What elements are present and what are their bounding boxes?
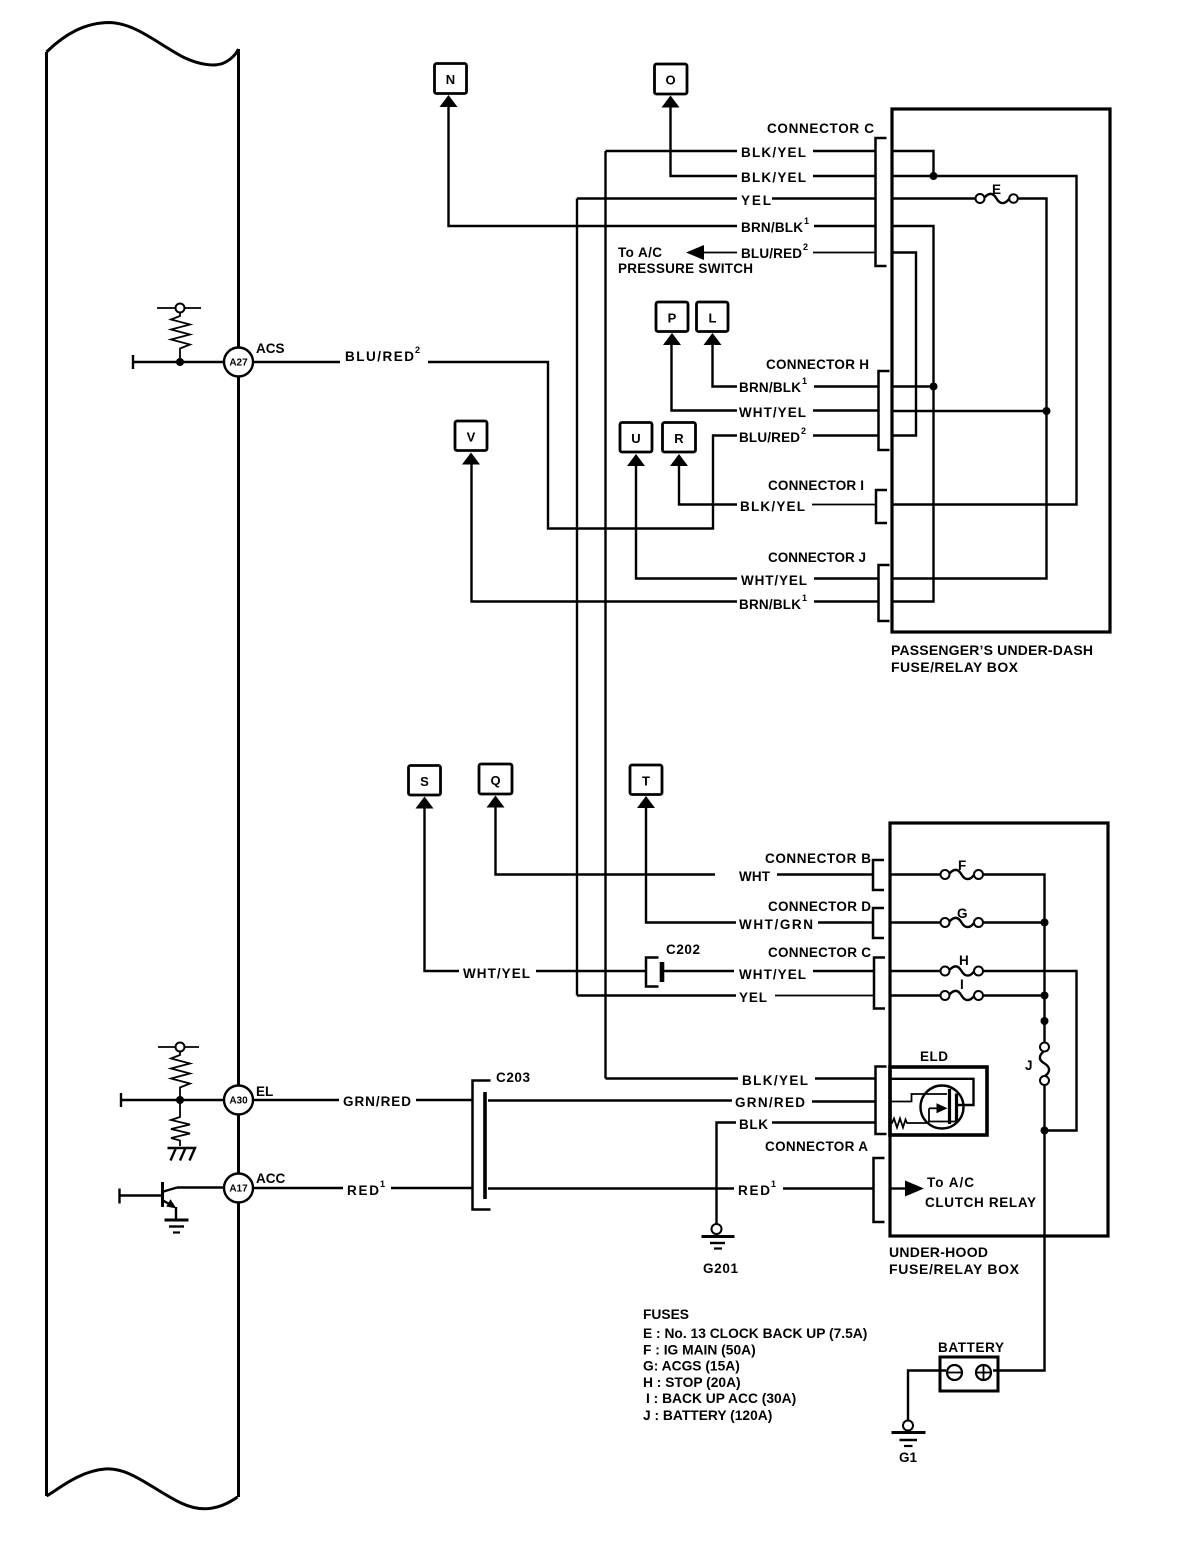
inline connector C203 — [473, 1081, 491, 1210]
svg-text:P: P — [668, 311, 677, 326]
junction dot above fuse J — [1041, 1017, 1049, 1025]
svg-text:BLU/RED: BLU/RED — [345, 349, 414, 364]
wire RED1 from A17 to C203 — [253, 1187, 472, 1189]
svg-text:WHT/GRN: WHT/GRN — [739, 917, 813, 932]
svg-text:1: 1 — [802, 376, 807, 386]
svg-text:A27: A27 — [229, 358, 248, 369]
label RED 1 (at connector A) — [738, 1179, 776, 1198]
label PASSENGER'S UNDER-DASH FUSE/RELAY BOX — [891, 642, 1093, 675]
connector box L — [697, 302, 729, 345]
wire BRN/BLK1 from V to connector J — [472, 462, 879, 602]
svg-text:YEL: YEL — [741, 193, 771, 208]
svg-text:GRN/RED: GRN/RED — [343, 1094, 411, 1109]
connector box U — [620, 423, 652, 467]
svg-text:WHT/YEL: WHT/YEL — [739, 967, 806, 982]
svg-text:N: N — [446, 72, 455, 87]
wires inside passenger box — [892, 151, 1077, 602]
connector bracket B — [873, 860, 884, 890]
connector box R — [663, 423, 696, 467]
connector bracket C (top) — [876, 138, 887, 266]
fuse J (battery main, vertical) — [1025, 1043, 1049, 1237]
ECU module outline (torn-edge body) — [47, 23, 239, 1509]
svg-text:I : BACK UP ACC (30A): I : BACK UP ACC (30A) — [646, 1391, 796, 1406]
wire YEL (under-hood C) — [577, 994, 874, 996]
connector box V — [455, 421, 487, 465]
svg-text:BLK/YEL: BLK/YEL — [740, 499, 805, 514]
junction dot at resistor/A27 wire — [176, 358, 184, 366]
svg-text:RED: RED — [347, 1183, 379, 1198]
svg-text:BRN/BLK: BRN/BLK — [739, 597, 801, 612]
svg-text:CONNECTOR C: CONNECTOR C — [767, 121, 874, 136]
junction dot fuse G output — [1041, 919, 1049, 927]
label BRN/BLK 1 (H) — [739, 376, 807, 395]
passenger's under-dash fuse/relay box — [892, 109, 1110, 632]
svg-text:V: V — [467, 430, 476, 445]
connector bracket A — [874, 1158, 885, 1222]
svg-text:CONNECTOR J: CONNECTOR J — [768, 550, 866, 565]
svg-text:U: U — [631, 431, 640, 446]
resistor (pull-down at A30) — [171, 1100, 190, 1146]
svg-text:ACC: ACC — [256, 1171, 285, 1186]
svg-text:E: E — [992, 182, 1001, 197]
wire BLU/RED2 (connector C) to A/C pressure switch arrow — [686, 245, 876, 260]
connector bracket J — [879, 565, 890, 621]
svg-text:WHT/YEL: WHT/YEL — [741, 573, 807, 588]
svg-text:A30: A30 — [229, 1096, 248, 1107]
wire BLK/YEL (2nd of connector C) from O — [671, 105, 876, 177]
wire BRN/BLK1 from N to connector C — [449, 104, 876, 226]
svg-text:I: I — [960, 977, 964, 992]
svg-text:BLU/RED: BLU/RED — [741, 246, 802, 261]
label BRN/BLK 1 — [741, 216, 809, 235]
connector box S — [409, 766, 441, 809]
svg-text:T: T — [642, 774, 650, 789]
wire WHT/YEL from U to connector J — [636, 463, 879, 579]
svg-text:Q: Q — [490, 773, 500, 788]
earth ground at transistor emitter — [165, 1220, 189, 1233]
wire YEL (connector C) to long vertical — [577, 197, 876, 199]
svg-text:UNDER-HOOD: UNDER-HOOD — [889, 1244, 988, 1260]
connector box O — [655, 64, 688, 108]
svg-text:YEL: YEL — [739, 990, 767, 1005]
label BRN/BLK 1 (J) — [739, 593, 807, 612]
label BLU/RED 2 — [741, 242, 808, 261]
long vertical wire BLK/YEL (top C to ELD) — [604, 151, 606, 1079]
svg-text:BLU/RED: BLU/RED — [739, 430, 800, 445]
wire A30 internal lead with end tick — [121, 1093, 223, 1107]
svg-text:G1: G1 — [899, 1450, 917, 1465]
fuse legend text — [643, 1307, 867, 1423]
svg-text:EL: EL — [256, 1084, 273, 1099]
svg-text:RED: RED — [738, 1183, 770, 1198]
svg-text:1: 1 — [802, 593, 807, 603]
svg-text:CONNECTOR H: CONNECTOR H — [766, 357, 869, 372]
svg-text:CONNECTOR I: CONNECTOR I — [768, 478, 864, 493]
svg-text:FUSE/RELAY BOX: FUSE/RELAY BOX — [889, 1261, 1020, 1277]
svg-text:H : STOP (20A): H : STOP (20A) — [643, 1375, 741, 1390]
svg-text:BLK/YEL: BLK/YEL — [741, 145, 806, 160]
long vertical wire YEL (top C to under-hood C) — [576, 199, 578, 996]
connector bracket C (under-hood) — [874, 958, 885, 1009]
svg-text:BLK: BLK — [739, 1117, 768, 1132]
svg-text:FUSE/RELAY BOX: FUSE/RELAY BOX — [891, 659, 1019, 675]
label BLU/RED2 (at A27) — [345, 345, 420, 364]
pin circle A27 — [224, 348, 253, 377]
svg-text:To A/C: To A/C — [618, 245, 662, 260]
junction dot (WHT/YEL tie) — [1043, 407, 1051, 415]
svg-text:C202: C202 — [666, 942, 700, 957]
connector box N — [435, 64, 467, 108]
svg-text:O: O — [665, 73, 675, 88]
inline connector C202 — [646, 958, 662, 987]
wire BLU/RED2 from A27 to connector H — [253, 362, 879, 529]
svg-text:R: R — [674, 431, 684, 446]
resistor (pull-up at A30) — [158, 1043, 199, 1101]
svg-text:BRN/BLK: BRN/BLK — [741, 220, 803, 235]
junction dot (BRN/BLK tie) — [930, 383, 938, 391]
svg-text:ELD: ELD — [920, 1049, 948, 1064]
svg-text:J: J — [1025, 1058, 1033, 1073]
svg-text:G201: G201 — [703, 1261, 738, 1276]
wire A27 internal lead with end tick — [133, 355, 224, 369]
wire WHT/GRN from T to connector D — [646, 805, 873, 923]
wire BLK/YEL (1st of connector C) to long vertical — [606, 150, 876, 152]
svg-text:WHT: WHT — [739, 869, 771, 884]
svg-text:A17: A17 — [229, 1184, 248, 1195]
ground G201 — [702, 1224, 739, 1276]
fuse F — [890, 858, 1045, 1043]
wire BLK from ELD to G201 — [717, 1123, 876, 1224]
connector bracket I — [876, 490, 887, 523]
wire and arrow To A/C CLUTCH RELAY — [890, 1175, 1036, 1210]
svg-text:BATTERY: BATTERY — [938, 1340, 1004, 1355]
wire BRN/BLK1 from L to connector H — [713, 342, 879, 387]
wire GRN/RED from A30 to C203 — [253, 1099, 472, 1101]
svg-text:GRN/RED: GRN/RED — [735, 1095, 805, 1110]
svg-text:C203: C203 — [496, 1070, 530, 1085]
under-hood fuse/relay box — [890, 823, 1108, 1236]
junction dot fuse J output — [1041, 1127, 1049, 1135]
svg-text:FUSES: FUSES — [643, 1307, 689, 1322]
wire WHT from Q to connector B — [496, 805, 874, 875]
svg-text:E : No. 13 CLOCK BACK UP (7.5A: E : No. 13 CLOCK BACK UP (7.5A) — [643, 1326, 867, 1341]
ground G1 — [892, 1421, 926, 1466]
svg-text:BLK/YEL: BLK/YEL — [741, 170, 806, 185]
svg-text:CONNECTOR A: CONNECTOR A — [765, 1139, 868, 1154]
junction dot (BLK/YEL tie) — [930, 172, 938, 180]
wire WHT/YEL from P to connector H — [672, 342, 879, 411]
svg-text:CONNECTOR C: CONNECTOR C — [768, 945, 871, 960]
ELD unit outer case — [890, 1067, 987, 1135]
svg-text:G: ACGS (15A): G: ACGS (15A) — [643, 1359, 740, 1374]
fuse H — [890, 953, 1077, 1131]
wire GRN/RED (C203 to ELD) — [488, 1101, 876, 1102]
resistor (ELD shunt) on BLK lead — [891, 1119, 929, 1128]
wire battery feed below box — [993, 1236, 1045, 1371]
connector bracket D — [873, 908, 884, 938]
transistor Q (at A17) — [120, 1182, 178, 1219]
svg-text:1: 1 — [771, 1179, 776, 1189]
wire WHT/YEL from S through C202 to under-hood connector C — [425, 806, 875, 972]
svg-text:BLK/YEL: BLK/YEL — [742, 1073, 808, 1088]
label RED 1 (at A17) — [347, 1179, 385, 1198]
svg-text:S: S — [420, 774, 429, 789]
label UNDER-HOOD FUSE/RELAY BOX — [889, 1244, 1020, 1277]
svg-text:F: F — [958, 858, 966, 873]
svg-text:PASSENGER’S UNDER-DASH: PASSENGER’S UNDER-DASH — [891, 642, 1093, 658]
svg-text:ACS: ACS — [256, 341, 285, 356]
svg-text:To A/C: To A/C — [927, 1175, 974, 1190]
fuse G — [890, 906, 1045, 927]
svg-text:2: 2 — [801, 426, 806, 436]
svg-text:CONNECTOR B: CONNECTOR B — [765, 851, 871, 866]
chassis ground (777) below A30 resistor — [168, 1148, 196, 1161]
connector bracket at ELD — [876, 1067, 887, 1135]
svg-text:WHT/YEL: WHT/YEL — [739, 405, 806, 420]
connector bracket H — [879, 371, 890, 450]
svg-text:BRN/BLK: BRN/BLK — [739, 380, 801, 395]
svg-text:CLUTCH RELAY: CLUTCH RELAY — [925, 1195, 1036, 1210]
wire battery negative to G1 — [908, 1371, 946, 1421]
wire RED1 (C203 to connector A) — [488, 1187, 874, 1189]
connector box Q — [479, 764, 512, 808]
pin circle A30 — [224, 1086, 253, 1115]
label BLU/RED 2 (H) — [739, 426, 806, 445]
wire BLK/YEL to ELD drain — [606, 1079, 974, 1106]
pin circle A17 — [224, 1174, 253, 1203]
fuse E — [976, 182, 1018, 203]
connector box T — [630, 765, 662, 808]
svg-text:2: 2 — [803, 242, 808, 252]
svg-text:CONNECTOR D: CONNECTOR D — [768, 899, 871, 914]
svg-text:G: G — [957, 906, 968, 921]
wire BLK/YEL from R to connector I — [679, 463, 876, 505]
label To A/C PRESSURE SWITCH — [618, 245, 753, 276]
svg-text:2: 2 — [415, 345, 420, 355]
resistor R (pull-up at A27) — [157, 304, 201, 363]
svg-text:J : BATTERY (120A): J : BATTERY (120A) — [643, 1408, 772, 1423]
svg-text:1: 1 — [804, 216, 809, 226]
svg-text:1: 1 — [380, 1179, 385, 1189]
junction dot at A30 wire — [176, 1096, 184, 1104]
ELD MOSFET sensor — [891, 1086, 964, 1129]
svg-text:F : IG MAIN (50A): F : IG MAIN (50A) — [643, 1343, 756, 1358]
wire collector to A17 — [177, 1186, 224, 1188]
fuse I — [890, 977, 1045, 1000]
junction dot fuse I output — [1041, 992, 1049, 1000]
connector box P — [656, 302, 688, 345]
svg-text:H: H — [959, 953, 969, 968]
svg-text:L: L — [709, 311, 717, 326]
battery — [938, 1340, 1004, 1391]
svg-text:WHT/YEL: WHT/YEL — [463, 966, 530, 981]
svg-text:PRESSURE SWITCH: PRESSURE SWITCH — [618, 261, 753, 276]
